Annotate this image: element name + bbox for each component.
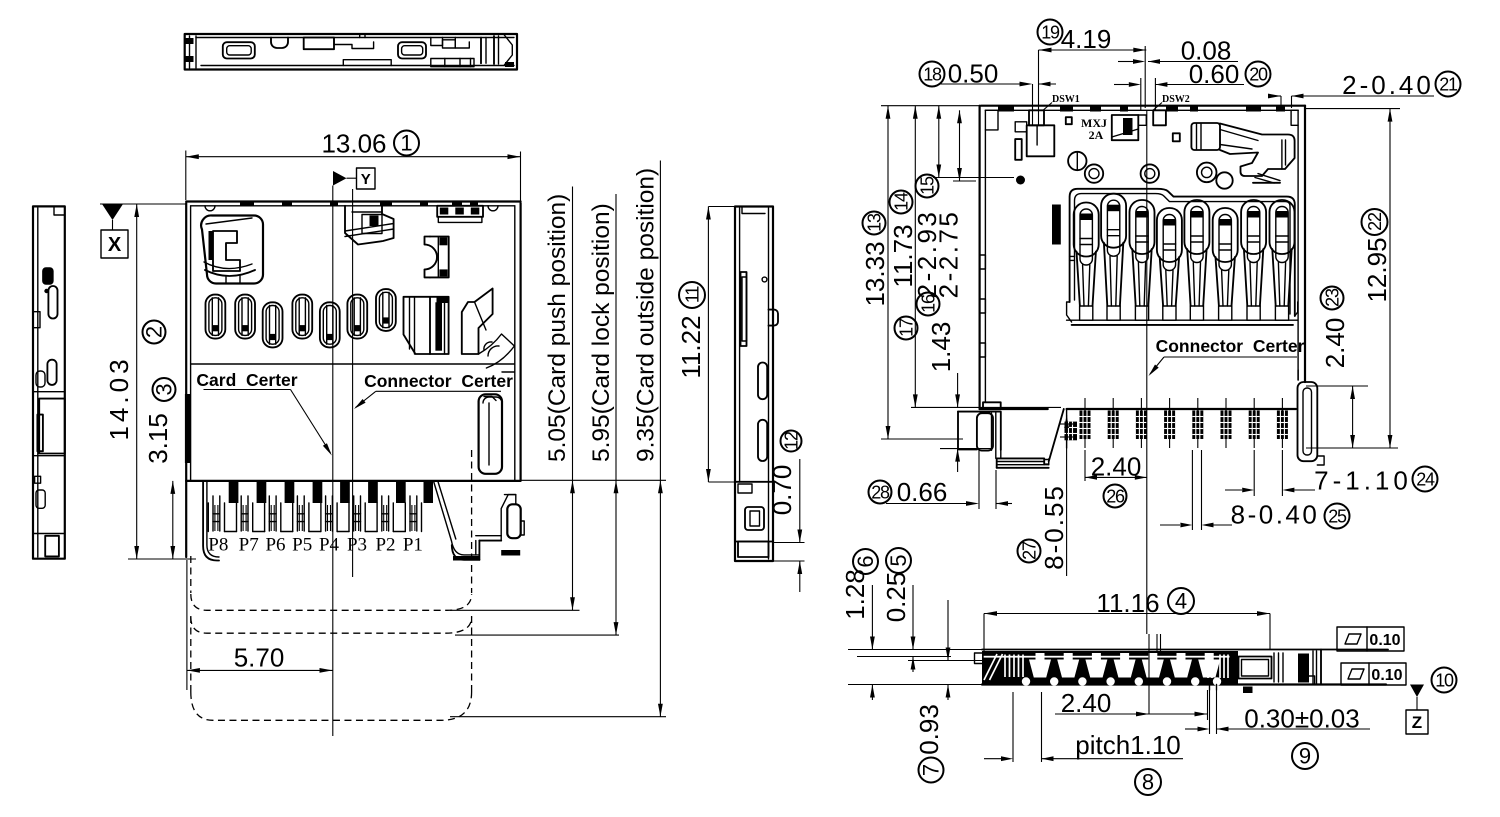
card edge dark bar: [185, 394, 191, 463]
svg-text:0.66: 0.66: [897, 477, 948, 507]
svg-text:4.19: 4.19: [1061, 24, 1112, 54]
svg-text:P6: P6: [265, 535, 285, 556]
svg-text:7-1.10: 7-1.10: [1314, 466, 1412, 496]
pad 5: [1192, 398, 1203, 448]
svg-text:6: 6: [853, 555, 878, 567]
svg-text:0.60: 0.60: [1189, 59, 1240, 89]
svg-text:8-0.55: 8-0.55: [1039, 484, 1069, 570]
contact finger 6: [1213, 208, 1238, 320]
svg-text:8-0.40: 8-0.40: [1231, 500, 1320, 530]
center line bottom view: [1146, 110, 1148, 634]
left extensions: [848, 649, 982, 651]
pin lead P1: [404, 503, 406, 532]
svg-text:2.40: 2.40: [1320, 318, 1350, 369]
pad 2: [1108, 398, 1119, 448]
svg-text:3.15: 3.15: [143, 413, 173, 464]
bottom view body: [980, 106, 1305, 409]
svg-text:9: 9: [1299, 744, 1311, 769]
svg-text:0.70: 0.70: [767, 465, 797, 516]
pivot dot: [1016, 176, 1025, 185]
svg-text:19: 19: [1041, 22, 1060, 42]
svg-text:Connector Certer: Connector Certer: [364, 371, 513, 391]
dim 0.25 (5): [881, 548, 915, 672]
card center line: [332, 186, 334, 737]
middle side view body: [735, 207, 778, 562]
contact slot: [292, 295, 312, 339]
pin lead P3: [348, 503, 350, 532]
pin lead P2: [376, 503, 378, 532]
section pad legs: [1209, 685, 1211, 691]
svg-text:P3: P3: [347, 535, 367, 556]
pin lead P8: [207, 503, 209, 532]
svg-text:5.70: 5.70: [234, 643, 285, 673]
switch top center: [345, 206, 394, 245]
left foot bracket: [958, 402, 1049, 468]
comb block top-right: [437, 206, 483, 223]
dim 4.19 (19): [1038, 20, 1147, 127]
svg-text:26: 26: [1106, 486, 1125, 506]
dim 1.28 (6): [840, 549, 878, 700]
svg-text:1: 1: [400, 131, 412, 156]
svg-text:2.40: 2.40: [1091, 452, 1142, 482]
svg-text:0.10: 0.10: [1371, 667, 1402, 684]
svg-text:15: 15: [917, 176, 937, 195]
section side view body: [975, 650, 1389, 694]
svg-text:DSW2: DSW2: [1162, 94, 1190, 105]
card outline dashed (3 positions): [191, 450, 472, 720]
contact finger 7: [1241, 200, 1266, 320]
dim 0.60 (20): [1114, 59, 1271, 110]
svg-text:P7: P7: [239, 535, 259, 556]
svg-text:11.16: 11.16: [1096, 588, 1159, 618]
shield tab marks top edge: [998, 107, 1014, 112]
slot right: [398, 42, 426, 58]
contact window: [1067, 189, 1298, 325]
slot: [48, 286, 57, 319]
pad 6: [1221, 398, 1232, 448]
contact finger 2: [1101, 194, 1126, 321]
card pocket: [39, 399, 65, 454]
dim 0.93 (7): [914, 600, 950, 783]
svg-text:Y: Y: [361, 171, 371, 188]
dim 14.03: [104, 204, 196, 559]
pin labels P8-P1: [208, 535, 423, 556]
dim 11.73 (14): [888, 106, 1061, 408]
plain circle: [1216, 172, 1232, 188]
shield tab marks main top edge: [240, 202, 254, 207]
dim 11.22: [676, 207, 735, 483]
ring 3: [1197, 163, 1217, 183]
contact pocket: [404, 297, 449, 354]
top rect on center: [1153, 110, 1166, 125]
top notches: [205, 206, 215, 211]
svg-text:3: 3: [152, 383, 177, 395]
svg-text:20: 20: [1249, 64, 1268, 84]
pad 4: [1164, 398, 1175, 448]
datum Y: [333, 168, 375, 189]
pad 8: [1277, 398, 1288, 448]
bottom section: [735, 481, 773, 483]
svg-text:0.30±0.03: 0.30±0.03: [1244, 704, 1359, 734]
dim 2-2.93 (15): [912, 106, 1014, 299]
bottom edge extension: [521, 479, 666, 481]
svg-text:5.05(Card push position): 5.05(Card push position): [544, 194, 571, 462]
contact slot: [263, 302, 283, 347]
dim 8-0.55 (27): [1018, 415, 1074, 576]
svg-text:5: 5: [886, 554, 911, 566]
svg-text:13.33: 13.33: [860, 241, 890, 306]
svg-text:2-2.75: 2-2.75: [934, 210, 964, 299]
svg-text:P1: P1: [403, 535, 423, 556]
flatness frame 2: [1341, 663, 1406, 685]
slots: [758, 363, 767, 400]
small square a: [1066, 117, 1072, 124]
dim 0.30±0.03 (9): [1185, 690, 1370, 769]
left notch: [33, 312, 40, 328]
svg-text:17: 17: [896, 318, 916, 337]
label Card Certer: [196, 370, 333, 457]
svg-text:DSW1: DSW1: [1052, 94, 1080, 105]
latch mechanism top-left: [201, 215, 263, 283]
contact slot: [235, 295, 255, 339]
terminal comb: [203, 481, 524, 561]
dim 8-0.40 (25): [1160, 450, 1350, 530]
svg-text:18: 18: [923, 64, 942, 84]
top edge extension left: [881, 105, 980, 107]
shield leg hatch: [1065, 422, 1078, 441]
housing right foot: [434, 481, 480, 555]
right details: [431, 38, 443, 46]
svg-text:16: 16: [918, 294, 938, 313]
card stop clip: [479, 372, 515, 474]
contact slot: [347, 295, 367, 339]
svg-text:8: 8: [1142, 770, 1154, 795]
svg-text:0.25: 0.25: [881, 572, 911, 623]
dim pitch1.10 (8): [984, 692, 1183, 795]
dim 2.40 right (23): [1306, 287, 1398, 449]
svg-text:Card Certer: Card Certer: [196, 370, 297, 390]
ring 2: [1141, 164, 1159, 182]
dim 0.70: [767, 431, 805, 593]
contact finger 1: [1074, 203, 1099, 321]
svg-text:P4: P4: [319, 535, 340, 556]
svg-text:24: 24: [1416, 469, 1435, 489]
center rects: [304, 38, 334, 50]
svg-text:0.10: 0.10: [1369, 632, 1400, 649]
dim 5.95 card lock: [455, 194, 619, 635]
small feet: [35, 476, 41, 483]
dim 5.70: [187, 560, 333, 690]
svg-text:2.40: 2.40: [1061, 688, 1112, 718]
svg-text:27: 27: [1019, 541, 1039, 560]
narrow rib: [1015, 139, 1022, 160]
svg-text:1.28: 1.28: [840, 569, 870, 620]
svg-text:11: 11: [682, 286, 702, 303]
connector center line: [352, 189, 354, 577]
pin lead P7: [236, 503, 238, 532]
svg-text:X: X: [108, 234, 122, 256]
svg-text:13.06: 13.06: [321, 129, 386, 159]
dim 2.40 pads (26): [1085, 450, 1147, 508]
svg-text:Z: Z: [1412, 713, 1422, 732]
ring 1: [1085, 164, 1103, 182]
dim 0.50 (18): [920, 59, 1057, 127]
right section: [1232, 651, 1238, 684]
contact finger 3: [1130, 200, 1155, 320]
notch: [271, 38, 288, 49]
svg-text:Connector Certer: Connector Certer: [1156, 336, 1305, 356]
svg-text:P2: P2: [375, 535, 395, 556]
main top view body: [185, 202, 521, 558]
divider line: [191, 363, 515, 365]
inner latch bar: [741, 272, 747, 346]
datum X: [100, 204, 186, 258]
svg-text:12.95: 12.95: [1362, 237, 1392, 302]
pin lead P4: [320, 503, 322, 532]
label Connector Certer (main view): [352, 371, 513, 411]
svg-text:23: 23: [1322, 288, 1342, 307]
dim 2-0.40 (21): [1268, 70, 1461, 108]
contact finger 8: [1270, 200, 1295, 320]
svg-text:2A: 2A: [1089, 128, 1104, 142]
right foot bracket: [1298, 370, 1325, 465]
dim 9.35 card outside: [450, 161, 666, 717]
left outside tab: [975, 653, 984, 664]
dim 2-2.75 (16): [917, 110, 977, 315]
screw circle: [1068, 152, 1086, 170]
switch DSW2 body: [1112, 115, 1147, 140]
contact finger 5: [1184, 200, 1209, 320]
svg-text:4: 4: [1175, 589, 1187, 614]
svg-text:5.95(Card lock position): 5.95(Card lock position): [588, 203, 615, 462]
svg-text:7: 7: [919, 764, 944, 776]
dim 0.66 (28): [869, 450, 1013, 509]
svg-text:11.22: 11.22: [676, 315, 706, 378]
datum Z (10): [1406, 668, 1457, 735]
svg-text:2-0.40: 2-0.40: [1342, 70, 1434, 100]
small slots: [36, 371, 45, 387]
svg-text:25: 25: [1328, 506, 1347, 526]
svg-text:28: 28: [871, 482, 890, 502]
left side view of connector: [33, 206, 65, 558]
bottom tab: [343, 60, 391, 66]
svg-text:13: 13: [864, 213, 884, 232]
svg-text:21: 21: [1439, 74, 1458, 94]
contact finger 4: [1157, 208, 1182, 320]
write-protect switch: [425, 237, 449, 278]
top side view of connector: [185, 34, 517, 70]
svg-text:0.50: 0.50: [948, 59, 999, 89]
contact slot: [376, 289, 396, 331]
corner diagonal: [1049, 409, 1064, 462]
section center line: [1148, 634, 1150, 714]
side tab: [769, 310, 779, 326]
dim 13.06: [186, 129, 521, 203]
slot left: [223, 42, 255, 58]
small square b: [1173, 133, 1180, 141]
svg-text:22: 22: [1365, 212, 1385, 231]
switch DSW1 body: [1015, 110, 1054, 156]
svg-text:pitch1.10: pitch1.10: [1075, 730, 1181, 760]
spring arm top-right: [1191, 123, 1294, 183]
dim 13.33 (13): [860, 106, 963, 439]
dim 5.05 card push: [450, 187, 580, 611]
svg-text:P5: P5: [292, 535, 312, 556]
svg-text:2: 2: [142, 326, 167, 338]
body bottom edge: [186, 480, 520, 482]
stopper hook right: [462, 289, 515, 369]
contact slot: [320, 302, 340, 347]
flatness frame 1: [1337, 627, 1404, 651]
svg-text:12: 12: [781, 431, 801, 450]
svg-text:P8: P8: [208, 535, 228, 556]
svg-text:9.35(Card outside position): 9.35(Card outside position): [633, 168, 660, 462]
svg-text:14.03: 14.03: [104, 355, 134, 440]
pin lead P6: [264, 503, 266, 532]
svg-text:0.93: 0.93: [914, 704, 944, 755]
dim 11.16 (4): [984, 588, 1270, 655]
pad 3: [1136, 398, 1147, 448]
label Connector Certer (bottom view): [1147, 336, 1305, 378]
side bracket: [507, 504, 520, 538]
rib bar left of window: [1052, 205, 1061, 245]
dim 0.08: [1118, 36, 1238, 109]
pin lead P5: [292, 503, 294, 532]
dark latch: [43, 268, 53, 284]
dim 1.43 (17): [895, 317, 994, 473]
svg-text:14: 14: [891, 192, 911, 211]
dim 2.40 section: [1055, 688, 1208, 720]
svg-text:10: 10: [1435, 670, 1454, 690]
svg-text:1.43: 1.43: [926, 322, 956, 373]
divider: [33, 391, 65, 393]
pad 1: [1080, 398, 1091, 448]
bottom edge right part: [1067, 408, 1296, 410]
dim 12.95 (22): [1305, 109, 1400, 448]
dim 7-1.10 (24): [1225, 450, 1438, 496]
pad 7: [1249, 398, 1260, 448]
dim 3.15: [143, 378, 177, 559]
contact slot: [206, 295, 226, 339]
